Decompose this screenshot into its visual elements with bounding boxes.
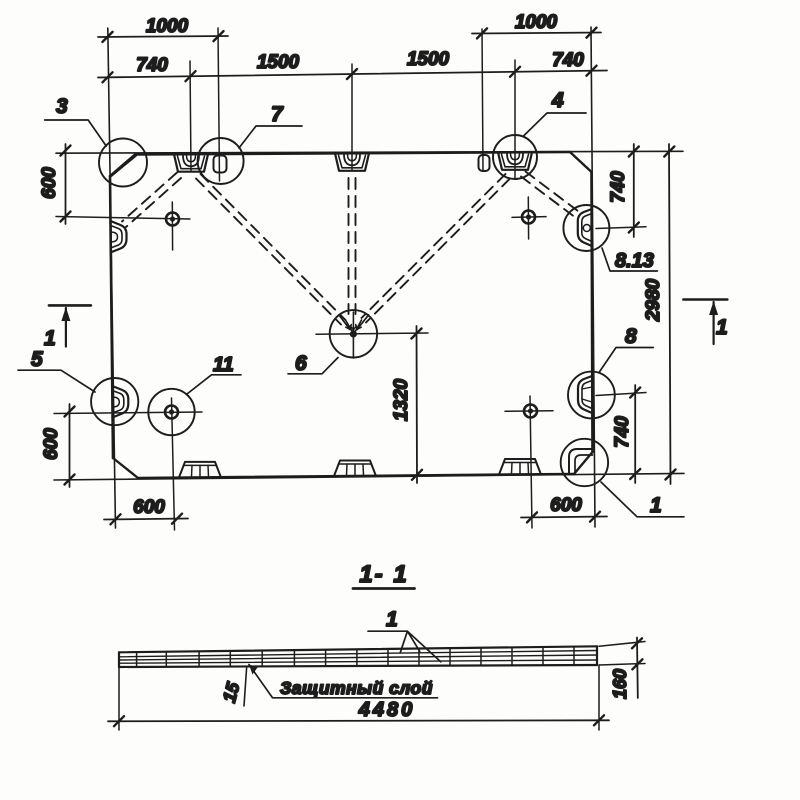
- lifting anchor top-center (plan, at x=352): [335, 153, 369, 171]
- svg-text:1000: 1000: [515, 12, 558, 33]
- dimension 740 lower-right: [630, 385, 640, 483]
- extension line right y=395 through anchor 8: [596, 393, 646, 396]
- svg-text:11: 11: [213, 354, 234, 376]
- svg-text:2980: 2980: [643, 278, 664, 322]
- svg-text:1: 1: [716, 316, 728, 339]
- leader and label 8.13: [602, 248, 657, 272]
- leader and label 6: [288, 352, 338, 375]
- svg-text:15: 15: [219, 679, 244, 704]
- dimension 160 section height: [599, 638, 645, 700]
- svg-text:600: 600: [39, 167, 60, 199]
- dimension 600 lower-left: [65, 404, 75, 487]
- leader and label 1 bottom-right: [601, 482, 684, 517]
- protective layer leader with arrow: [249, 665, 438, 698]
- callout circle 1 bottom-right: [561, 439, 608, 486]
- svg-text:3: 3: [56, 95, 68, 118]
- callout circle 8: [568, 372, 615, 419]
- dimension 1320 center: [412, 326, 423, 483]
- leader and label 5: [18, 348, 95, 392]
- section title 1-1: [353, 561, 415, 589]
- svg-text:4: 4: [551, 89, 564, 112]
- svg-text:5: 5: [31, 348, 43, 371]
- svg-text:740: 740: [136, 55, 168, 76]
- extension line x=174 below hole 11: [172, 398, 175, 530]
- hole lower-right with crosshair: [505, 405, 553, 418]
- svg-text:1500: 1500: [257, 52, 300, 73]
- bottom support pad center (at x=355): [334, 461, 376, 477]
- callout circle 7: [198, 138, 244, 184]
- svg-text:1000: 1000: [146, 16, 189, 37]
- extension line x=482 (1000 right): [482, 29, 483, 171]
- svg-text:1500: 1500: [407, 49, 450, 70]
- dimension 600 upper-left: [61, 144, 71, 224]
- leader and label 4: [524, 89, 586, 136]
- edge anchor right upper / detail 8.13 (at y=228): [578, 209, 592, 246]
- dimension row 740-1500-1500-740: [98, 66, 607, 83]
- sling dashed pair: top-left anchor to center: [196, 174, 346, 325]
- hole upper-left with crosshair: [166, 202, 179, 250]
- svg-text:600: 600: [550, 495, 582, 516]
- section slab mesh dividers: [137, 647, 574, 667]
- dimension 600 bottom-left: [104, 514, 188, 525]
- extension line x=531 below right hole: [530, 396, 532, 528]
- svg-text:600: 600: [41, 428, 62, 460]
- callout circle 4: [493, 135, 537, 179]
- sling dashed pair: top-right anchor to right edge anchor: [521, 172, 583, 220]
- bottom support pad right (at x=520): [499, 459, 541, 475]
- extension line x=515 top right anchor: [514, 60, 516, 178]
- sling dashed pair: top-right anchor to center: [362, 174, 511, 323]
- svg-text:1: 1: [44, 327, 56, 350]
- dimension 1000 top-left: [98, 31, 228, 42]
- extension line x=190 top anchor: [190, 61, 191, 171]
- svg-text:160: 160: [610, 669, 630, 699]
- leader and label 7: [239, 103, 302, 148]
- svg-text:1- 1: 1- 1: [359, 561, 408, 588]
- leader and label 1 on section: [368, 608, 441, 662]
- callout circle 3: [99, 139, 147, 187]
- extension line x=352 center anchor: [351, 64, 353, 170]
- leader and label 3: [45, 95, 106, 146]
- sling dashed pair: top-left anchor to left edge anchor: [122, 173, 181, 228]
- sling dashed pair: top-center anchor to center (vertical): [349, 178, 356, 314]
- extension line left y=412: [54, 412, 202, 414]
- hole lower-left (detail 11): [165, 406, 178, 419]
- edge anchor left lower / detail 5 (at y=401): [112, 386, 128, 418]
- edge anchor right lower / detail 8 (at y=395): [578, 376, 592, 413]
- left edge extension line: [108, 28, 116, 528]
- plate outline plan view: [110, 152, 593, 478]
- dimension 2980 right: [664, 144, 675, 484]
- callout circle 6 center: [330, 310, 377, 357]
- dimension 4480 section: [108, 665, 609, 730]
- right edge extension line: [591, 27, 595, 527]
- leader and label 11: [187, 354, 241, 394]
- svg-text:740: 740: [552, 50, 584, 71]
- bottom support pad left (at x=200): [179, 462, 221, 478]
- svg-text:8: 8: [625, 325, 637, 348]
- svg-text:1: 1: [386, 608, 398, 631]
- section 1-1 slab body: [119, 646, 597, 667]
- section mark 1 left: [44, 305, 91, 350]
- slot hole near circle 4 (x=484): [479, 155, 490, 171]
- svg-text:8.13: 8.13: [615, 250, 654, 272]
- lifting anchor top-left (plan, at x=191): [174, 154, 208, 172]
- callout circle 8.13: [563, 205, 609, 251]
- svg-text:1320: 1320: [391, 378, 412, 421]
- extension line right y=227 through anchor 8.13: [596, 227, 646, 229]
- dimension 1000 top-right: [472, 28, 601, 39]
- section mark 1 right: [683, 300, 727, 345]
- extension line center y=334 for 1320: [316, 333, 428, 334]
- bottom edge extension line: [54, 473, 684, 480]
- dimension 15 protective layer: [219, 668, 247, 706]
- svg-text:Защитный слой: Защитный слой: [280, 678, 433, 698]
- extension line x=218 (1000 left): [218, 28, 220, 181]
- dimension 740 upper-right: [629, 144, 639, 237]
- hole upper-right with crosshair: [512, 197, 546, 239]
- svg-text:740: 740: [612, 416, 633, 448]
- lifting anchor top-right (plan, at x=515): [498, 152, 532, 170]
- corner loop bottom-right (detail 1): [569, 449, 593, 474]
- svg-text:600: 600: [133, 497, 165, 518]
- leader and label 8: [599, 325, 653, 373]
- callout circle 5: [91, 378, 138, 425]
- center sling point (detail 6): [339, 312, 369, 358]
- slot hole near circle 7 (x=220): [214, 156, 227, 173]
- svg-text:4480: 4480: [358, 699, 416, 721]
- svg-text:7: 7: [271, 103, 284, 126]
- edge anchor left upper (at y=236): [111, 221, 127, 253]
- svg-text:740: 740: [608, 171, 629, 203]
- svg-text:1: 1: [650, 494, 662, 517]
- dimension 600 bottom-right: [521, 512, 607, 523]
- extension line left y=216: [56, 217, 190, 220]
- svg-text:6: 6: [295, 352, 307, 375]
- top edge extension line: [56, 151, 683, 153]
- callout circle 11: [148, 389, 194, 435]
